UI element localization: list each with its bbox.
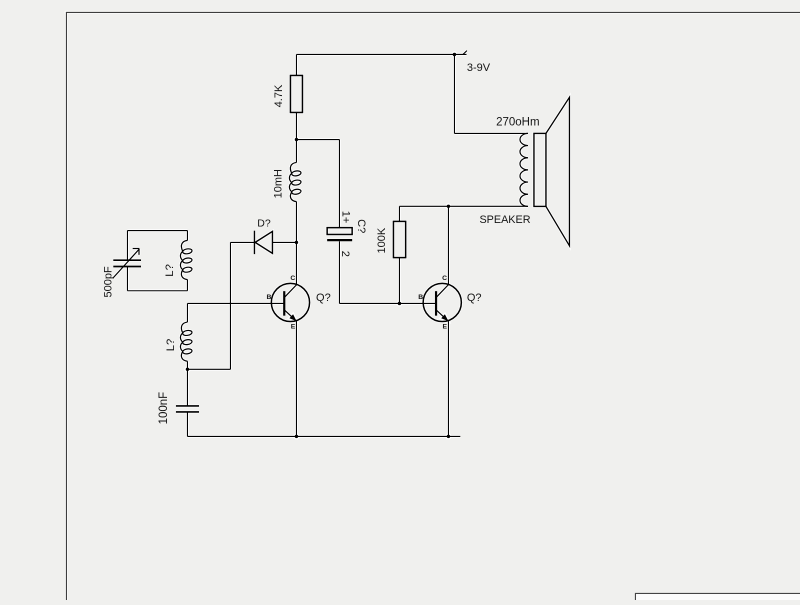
svg-text:C?: C? — [355, 219, 367, 233]
svg-text:270oHm: 270oHm — [496, 117, 539, 129]
svg-text:L?: L? — [164, 264, 176, 277]
svg-text:100K: 100K — [376, 227, 388, 253]
svg-text:2: 2 — [339, 251, 351, 257]
svg-text:B: B — [418, 294, 423, 301]
svg-text:500pF: 500pF — [102, 266, 114, 297]
svg-text:Q?: Q? — [316, 292, 331, 304]
svg-text:C: C — [442, 275, 447, 282]
svg-text:C: C — [290, 275, 295, 282]
svg-text:100nF: 100nF — [158, 392, 170, 425]
svg-text:3-9V: 3-9V — [467, 62, 491, 74]
svg-text:L?: L? — [165, 339, 177, 352]
svg-text:1+: 1+ — [340, 211, 352, 224]
svg-text:10mH: 10mH — [273, 169, 285, 198]
svg-text:SPEAKER: SPEAKER — [479, 214, 530, 226]
svg-text:B: B — [266, 294, 271, 301]
svg-text:E: E — [291, 323, 296, 330]
svg-text:Q?: Q? — [467, 292, 482, 304]
svg-text:4.7K: 4.7K — [273, 84, 285, 107]
svg-text:D?: D? — [257, 218, 271, 230]
svg-text:E: E — [443, 323, 448, 330]
